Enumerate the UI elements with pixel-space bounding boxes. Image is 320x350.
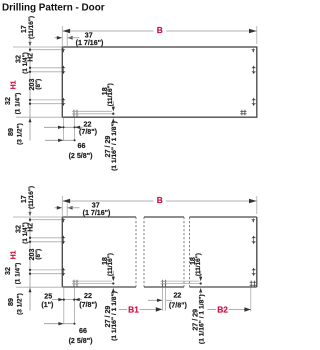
bottom diagram: dim 66 arrow bbox=[58, 322, 63, 325]
bottom diagram: dim B right arrow bbox=[249, 199, 257, 203]
top diagram: chain dot y=71.8 bbox=[29, 71, 31, 73]
bottom door left edge: hole pair marker rows 270/274 bbox=[61, 269, 65, 271]
bottom diagram left: bottom hole with dim 18 bbox=[72, 280, 112, 282]
svg-text:37: 37 bbox=[85, 31, 93, 39]
bottom diagram: dim B1 line bbox=[119, 308, 127, 310]
svg-text:H1: H1 bbox=[11, 80, 18, 89]
bottom diagram: chain dot y=99.9 bbox=[29, 269, 31, 271]
svg-text:B1: B1 bbox=[128, 305, 139, 315]
top diagram: dim 37 line bbox=[55, 37, 63, 39]
svg-text:(1 1/4"): (1 1/4") bbox=[15, 93, 22, 115]
bottom diagram: break line x=189.5 bbox=[189, 217, 191, 287]
top diagram: hole row extension y=99.9 bbox=[30, 99, 62, 101]
svg-text:(8"): (8") bbox=[35, 249, 42, 260]
svg-text:Drilling Pattern - Door: Drilling Pattern - Door bbox=[2, 3, 105, 14]
top door right edge: hole pair marker rows 100/104 bbox=[252, 99, 256, 101]
bottom diagram: door panel outline with break lines bbox=[62, 217, 256, 287]
bottom diagram: hole row extension y=103.7 bbox=[30, 273, 62, 275]
bottom door left edge: hole pair marker rows 238/242 bbox=[61, 237, 65, 239]
bottom diagram: break line x=136 bbox=[135, 217, 137, 287]
top diagram: hole column extension (37) bbox=[66, 34, 68, 48]
svg-text:89: 89 bbox=[7, 298, 15, 306]
top diagram: left edge extension up bbox=[61, 26, 63, 47]
top door bottom left: screw hole cluster 2x2 bbox=[73, 110, 75, 118]
bottom diagram: break line x=144 bbox=[143, 217, 145, 287]
bottom diagram: chain dot y=67.8 bbox=[29, 237, 31, 239]
top diagram: dim 22 right arrow bbox=[75, 126, 80, 129]
bottom diagram: dim B1 arrow bbox=[156, 307, 162, 312]
svg-text:22: 22 bbox=[84, 120, 92, 128]
top diagram: chain dot y=67.8 bbox=[29, 67, 31, 69]
bottom diagram: left chain dimension line bbox=[29, 217, 31, 222]
svg-text:(11/16"): (11/16") bbox=[107, 253, 114, 276]
svg-text:22: 22 bbox=[173, 292, 181, 300]
svg-text:32: 32 bbox=[4, 267, 12, 275]
top diagram: dim B right arrow bbox=[249, 29, 257, 33]
svg-text:22: 22 bbox=[84, 292, 92, 300]
bottom diagram: dim 22 middle line bbox=[148, 299, 162, 301]
top diagram: hole row extension y=67.8 bbox=[30, 67, 62, 69]
svg-text:(2 5/8"): (2 5/8") bbox=[69, 337, 94, 345]
top diagram: dim 89 arrow at bottom edge bbox=[29, 118, 32, 122]
top door left: corner hole marker bbox=[62, 49, 66, 51]
svg-text:(11/16"): (11/16") bbox=[28, 186, 35, 209]
bottom door bottom middle: screw hole cluster 2x2 bbox=[161, 280, 163, 287]
svg-text:(1 1/16" / 1 1/8"): (1 1/16" / 1 1/8") bbox=[111, 291, 118, 341]
bottom diagram: middle dim 22 arrow bbox=[157, 299, 162, 302]
svg-text:(3 1/2"): (3 1/2") bbox=[17, 293, 24, 315]
svg-text:66: 66 bbox=[78, 142, 86, 150]
top diagram: dim 66 arrow bbox=[58, 139, 63, 142]
svg-text:H2: H2 bbox=[27, 53, 34, 62]
svg-text:(1 7/16"): (1 7/16") bbox=[83, 209, 111, 217]
bottom diagram: dim 37 line bbox=[55, 207, 63, 209]
svg-text:(7/8"): (7/8") bbox=[169, 301, 188, 309]
top door left edge: hole pair marker rows 100/104 bbox=[61, 99, 65, 101]
top door bottom right: screw hole cluster 2x2 bbox=[241, 110, 243, 116]
bottom diagram: dim 66 line bbox=[44, 323, 75, 325]
top diagram: top edge extension line bbox=[13, 46, 62, 48]
bottom diagram: hole row extension y=67.8 bbox=[30, 237, 62, 239]
bottom door left: corner hole marker bbox=[62, 219, 66, 221]
bottom diagram: hole column extension (37) bbox=[66, 204, 68, 218]
svg-text:H1: H1 bbox=[11, 250, 18, 259]
bottom diagram: dim B left arrow bbox=[63, 199, 71, 203]
bottom diagram: dim 37 left-pointing arrow bbox=[67, 206, 72, 210]
bottom door right edge: hole pair marker rows 238/242 bbox=[252, 237, 256, 239]
bottom diagram: dim B2 arrow bbox=[244, 307, 250, 312]
bottom diagram: dim 89 arrow at bottom edge bbox=[29, 288, 32, 292]
bottom diagram: dim 37 right-pointing arrow bbox=[57, 206, 62, 210]
bottom diagram: hole row extension y=99.9 bbox=[30, 269, 62, 271]
svg-text:25: 25 bbox=[44, 292, 52, 300]
top diagram: door panel outline bbox=[62, 47, 256, 117]
bottom diagram: dim 22 arrow bbox=[75, 298, 80, 301]
top diagram: hole row extension y=103.7 bbox=[30, 103, 62, 105]
svg-text:(1"): (1") bbox=[41, 301, 54, 309]
bottom diagram: dim B2 line bbox=[208, 309, 217, 311]
svg-text:(2 5/8"): (2 5/8") bbox=[69, 152, 94, 160]
top diagram: bottom hole with dim 18 bbox=[72, 110, 112, 112]
bottom diagram: hole row extension y=49.7 bbox=[30, 219, 62, 221]
top diagram: hole row extension y=71.8 bbox=[30, 71, 62, 73]
svg-text:(7/8"): (7/8") bbox=[79, 128, 98, 136]
top door left edge: hole pair marker rows 68/72 bbox=[61, 67, 65, 69]
bottom diagram: bottom edge extension line bbox=[16, 286, 62, 288]
bottom diagram right: bottom hole with dim 18 bbox=[161, 280, 200, 282]
bottom diagram left: dim 27/29 below bottom edge bbox=[112, 288, 115, 293]
svg-text:(3 1/2"): (3 1/2") bbox=[17, 123, 24, 145]
svg-text:17: 17 bbox=[20, 25, 28, 33]
bottom diagram: right edge extension up bbox=[256, 196, 258, 214]
top door right: corner hole marker bbox=[252, 49, 256, 51]
bottom diagram: dim 17 arrow at top edge bbox=[29, 212, 32, 216]
top diagram: dim 66 line bbox=[45, 139, 75, 141]
bottom door right edge: hole pair marker rows 270/274 bbox=[252, 269, 256, 271]
svg-text:(1 1/16" / 1 1/8"): (1 1/16" / 1 1/8") bbox=[111, 121, 118, 171]
svg-text:(11/16"): (11/16") bbox=[195, 253, 202, 276]
svg-text:B: B bbox=[157, 195, 163, 205]
svg-text:H2: H2 bbox=[27, 223, 34, 232]
top diagram: dim 22 line bbox=[44, 126, 83, 128]
top diagram: dim 37 left-pointing arrow bbox=[67, 36, 72, 40]
top door right edge: hole pair marker rows 68/72 bbox=[252, 67, 256, 69]
svg-text:(1 7/16"): (1 7/16") bbox=[76, 39, 104, 47]
top diagram: bottom edge extension line bbox=[16, 116, 62, 118]
svg-text:66: 66 bbox=[79, 327, 87, 335]
top diagram: dim 17 arrow at top edge bbox=[29, 42, 32, 46]
svg-text:32: 32 bbox=[4, 97, 12, 105]
top diagram: chain dot y=49.7 bbox=[29, 49, 31, 51]
bottom diagram: dim B line bbox=[62, 200, 153, 202]
bottom diagram: chain dot y=103.7 bbox=[29, 273, 31, 275]
bottom diagram: top edge extension line bbox=[13, 216, 62, 218]
bottom diagram: dim 25 arrow bbox=[58, 298, 63, 301]
top diagram: chain dot y=99.9 bbox=[29, 99, 31, 101]
bottom diagram: break line x=184 bbox=[183, 217, 185, 287]
bottom diagram: hole row extension y=71.8 bbox=[30, 241, 62, 243]
bottom diagram: chain dot y=71.8 bbox=[29, 241, 31, 243]
top diagram: dim 27/29 below bottom edge bbox=[112, 118, 115, 123]
svg-text:B: B bbox=[157, 25, 163, 35]
svg-text:(11/16"): (11/16") bbox=[107, 83, 114, 106]
svg-text:89: 89 bbox=[7, 128, 15, 136]
svg-text:(11/16"): (11/16") bbox=[28, 16, 35, 39]
top diagram: dim 22 left arrow bbox=[58, 126, 63, 129]
top diagram: dim B left arrow bbox=[63, 29, 71, 33]
bottom diagram: left edge extension up bbox=[61, 196, 63, 217]
bottom diagram: dim 25/22 line bbox=[52, 299, 82, 301]
svg-text:37: 37 bbox=[92, 201, 100, 209]
top diagram: dim B line bbox=[62, 30, 153, 32]
top diagram: right edge extension up bbox=[256, 26, 258, 44]
svg-text:(8"): (8") bbox=[35, 79, 42, 90]
bottom door bottom right: screw hole cluster 2x2 bbox=[250, 281, 252, 287]
top diagram: left chain dimension line bbox=[29, 47, 31, 52]
bottom diagram: chain dot y=49.7 bbox=[29, 219, 31, 221]
bottom door right: corner hole marker bbox=[252, 219, 256, 221]
top diagram: hole row extension y=49.7 bbox=[30, 49, 62, 51]
svg-text:(1 1/4"): (1 1/4") bbox=[15, 263, 22, 285]
svg-text:(1 1/16" / 1 1/8"): (1 1/16" / 1 1/8") bbox=[199, 294, 206, 344]
top diagram: dim 37 right-pointing arrow bbox=[57, 36, 62, 40]
top diagram: extension lines below door bbox=[63, 118, 65, 141]
svg-text:(7/8"): (7/8") bbox=[79, 301, 98, 309]
bottom door bottom left: screw hole cluster 2x2 bbox=[73, 280, 75, 287]
svg-text:17: 17 bbox=[20, 195, 28, 203]
top diagram: chain dot y=103.7 bbox=[29, 103, 31, 105]
bottom diagram: extension lines below door bbox=[63, 288, 65, 325]
svg-text:B2: B2 bbox=[217, 305, 228, 315]
bottom diagram right: dim 27/29 below bottom edge bbox=[199, 288, 202, 293]
